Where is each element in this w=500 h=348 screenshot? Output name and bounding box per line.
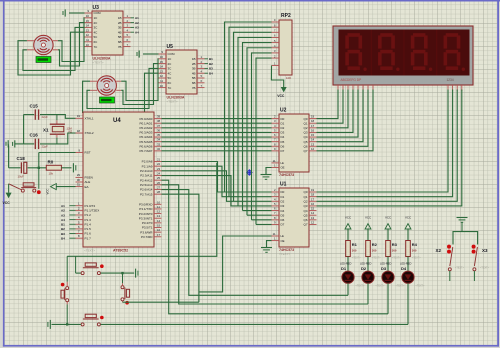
wire VCC to R3 bbox=[387, 229, 389, 241]
svg-text:VCC: VCC bbox=[277, 94, 285, 98]
U2 pin 6 D4 bbox=[272, 136, 280, 138]
U1 pin 12 Q7 bbox=[309, 223, 317, 225]
svg-text:16: 16 bbox=[311, 128, 315, 132]
svg-text:1B: 1B bbox=[118, 16, 122, 20]
wire M1 coil B to U3 2C bbox=[58, 23, 85, 66]
wire reset button to RST junction bbox=[38, 168, 40, 189]
svg-text:C18: C18 bbox=[17, 156, 26, 161]
svg-text:XTAL2: XTAL2 bbox=[85, 131, 94, 135]
RP2 pin 4 bbox=[272, 47, 280, 49]
U5 pin 11 (6C) bbox=[159, 82, 167, 84]
svg-text:P1.6: P1.6 bbox=[85, 232, 92, 236]
svg-text:P1.4: P1.4 bbox=[85, 222, 92, 226]
svg-text:P3.3/INT1: P3.3/INT1 bbox=[139, 216, 153, 220]
RP2 pin 1 bbox=[272, 65, 280, 67]
M2 pin stubs bbox=[90, 80, 97, 82]
svg-text:D7: D7 bbox=[281, 223, 285, 227]
svg-text:15: 15 bbox=[86, 19, 90, 23]
U2 pin 16 Q3 bbox=[309, 131, 317, 133]
wire C15-C16 left join bbox=[23, 115, 25, 144]
svg-text:RST: RST bbox=[85, 151, 91, 155]
node A1 (P1.0) bbox=[70, 205, 76, 207]
svg-text:D0: D0 bbox=[281, 117, 285, 121]
U1 pin 11 LE bbox=[272, 235, 280, 237]
U1 pin 15 Q4 bbox=[309, 210, 317, 212]
wire X3 lower stub bbox=[473, 271, 475, 281]
svg-text:D3: D3 bbox=[281, 131, 285, 135]
U3 pin 9 (COM) bbox=[85, 12, 93, 14]
display digit pin 3 bbox=[456, 85, 458, 91]
resistor R2 300 bbox=[366, 241, 371, 257]
svg-text:6B: 6B bbox=[192, 81, 196, 85]
wire P2.4 to LED D3 row bbox=[162, 180, 389, 314]
svg-text:14: 14 bbox=[157, 219, 161, 223]
svg-text:17: 17 bbox=[157, 233, 161, 237]
M1 position readout (green) bbox=[36, 57, 51, 63]
wire M2 coil C to U5 3C bbox=[87, 68, 159, 108]
U4 pin 33 P0.6/AD6 bbox=[154, 145, 162, 147]
node A4 (P1.3) bbox=[70, 219, 76, 221]
U3 pin 12 (5C) bbox=[85, 36, 93, 38]
U5 pin 5 (5B) bbox=[197, 77, 205, 79]
svg-text:14: 14 bbox=[86, 24, 90, 28]
svg-text:300: 300 bbox=[352, 248, 357, 252]
svg-text:D1: D1 bbox=[281, 195, 285, 199]
U5 pin 4 (4B) bbox=[197, 72, 205, 74]
svg-text:VCC: VCC bbox=[46, 189, 50, 195]
node A2 (P1.1) bbox=[70, 209, 76, 211]
svg-text:16: 16 bbox=[311, 202, 315, 206]
svg-text:P3.7/RD: P3.7/RD bbox=[141, 235, 153, 239]
ic U1 74HC573 bbox=[279, 188, 309, 247]
node B4 bbox=[205, 72, 209, 74]
svg-text:ALE: ALE bbox=[85, 180, 91, 184]
ground (U1 OE) bbox=[261, 247, 272, 249]
display segment pin DP bbox=[372, 85, 374, 91]
svg-text:LED-RED: LED-RED bbox=[400, 262, 412, 266]
M2 position readout (green) bbox=[100, 97, 115, 103]
svg-text:P3.1/TXD: P3.1/TXD bbox=[139, 207, 153, 211]
svg-text:16: 16 bbox=[160, 55, 164, 59]
U5 pin 16 (1C) bbox=[159, 58, 167, 60]
U4 pin 27 P2.6/A14 bbox=[154, 189, 162, 191]
svg-text:X1: X1 bbox=[43, 128, 49, 133]
svg-text:X3: X3 bbox=[482, 248, 488, 253]
node A3 bbox=[131, 26, 135, 28]
svg-text:LE: LE bbox=[281, 161, 285, 165]
svg-text:PSEN: PSEN bbox=[85, 176, 93, 180]
U3 pin 10 (7C) bbox=[85, 46, 93, 48]
display segment pin B bbox=[342, 85, 344, 91]
svg-text:P0.6/AD6: P0.6/AD6 bbox=[139, 144, 152, 148]
svg-text:P1.3: P1.3 bbox=[85, 218, 92, 222]
svg-text:Q1: Q1 bbox=[303, 121, 307, 125]
U2 pin 18 Q1 bbox=[309, 122, 317, 124]
svg-text:13: 13 bbox=[157, 214, 161, 218]
node A1 bbox=[131, 17, 135, 19]
svg-text:B2: B2 bbox=[209, 62, 213, 66]
svg-text:P3.5/T1: P3.5/T1 bbox=[142, 226, 153, 230]
U4 pin 31 EA bbox=[76, 186, 84, 188]
svg-text:R0: R0 bbox=[48, 160, 54, 165]
svg-text:26: 26 bbox=[157, 181, 161, 185]
svg-text:10uF: 10uF bbox=[18, 174, 25, 178]
svg-text:P2.1/A9: P2.1/A9 bbox=[142, 164, 153, 168]
svg-text:A2: A2 bbox=[135, 21, 139, 25]
svg-text:16: 16 bbox=[157, 228, 161, 232]
U4 pin 25 P2.4/A12 bbox=[154, 179, 162, 181]
svg-text:D0: D0 bbox=[281, 190, 285, 194]
U2 pin 1 OE bbox=[272, 167, 280, 169]
U4 pin 8 P1.7 bbox=[76, 237, 84, 239]
svg-text:3B: 3B bbox=[192, 67, 196, 71]
wire R1 to D1 bbox=[347, 257, 349, 272]
wire VCC to EA bbox=[56, 186, 75, 188]
wire U2 Q outputs to display segments bbox=[317, 90, 339, 119]
svg-text:R4: R4 bbox=[412, 242, 418, 247]
svg-text:A1: A1 bbox=[61, 204, 65, 208]
node B1 (P1.4) bbox=[70, 223, 76, 225]
U4 pin 21 P2.0/A8 bbox=[154, 161, 162, 163]
wire R4 to D4 bbox=[407, 257, 409, 272]
junction top row / right key bbox=[121, 272, 123, 274]
U4 pin 11 P3.1/TXD bbox=[154, 208, 162, 210]
ground (X2/X3) bbox=[457, 217, 468, 219]
wire X2/X3 common bbox=[453, 232, 478, 245]
svg-text:X2: X2 bbox=[436, 248, 442, 253]
svg-text:P1.7: P1.7 bbox=[85, 236, 92, 240]
wire C15 to XTAL1 bbox=[40, 115, 76, 119]
svg-text:Q0: Q0 bbox=[303, 117, 307, 121]
U1 pin 18 Q1 bbox=[309, 196, 317, 198]
wire key column left bbox=[66, 256, 68, 282]
U4 pin 28 P2.7/A15 bbox=[154, 193, 162, 195]
svg-text:13: 13 bbox=[86, 28, 90, 32]
svg-text:P1.0/T2: P1.0/T2 bbox=[85, 204, 96, 208]
svg-text:D2: D2 bbox=[281, 126, 285, 130]
RP2 pin 8 bbox=[272, 26, 280, 28]
svg-text:A4: A4 bbox=[61, 218, 65, 222]
display digit pin 4 bbox=[461, 85, 463, 91]
wire P2.5 to LED D2 row bbox=[162, 185, 369, 304]
node B3 (P1.6) bbox=[70, 233, 76, 235]
wire top key row riser bbox=[75, 256, 77, 273]
RP2 pin 9 bbox=[272, 21, 280, 23]
svg-text:15: 15 bbox=[311, 133, 315, 137]
node B2 bbox=[205, 63, 209, 65]
svg-text:24: 24 bbox=[157, 172, 161, 176]
svg-text:C15: C15 bbox=[30, 104, 39, 109]
wire VCC to R1 bbox=[347, 229, 349, 241]
U4 pin 26 P2.5/A13 bbox=[154, 184, 162, 186]
display digit pin 2 bbox=[452, 85, 454, 91]
svg-text:<TEXT>: <TEXT> bbox=[455, 267, 465, 270]
svg-text:10: 10 bbox=[86, 43, 90, 47]
U3 pin 14 (3C) bbox=[85, 26, 93, 28]
U1 pin 5 D3 bbox=[272, 205, 280, 207]
svg-text:D4: D4 bbox=[281, 135, 285, 139]
svg-text:P2.5/A13: P2.5/A13 bbox=[140, 183, 153, 187]
svg-text:1B: 1B bbox=[192, 57, 196, 61]
svg-text:P0.2/AD2: P0.2/AD2 bbox=[139, 126, 152, 130]
wire C16 to XTAL2 bbox=[40, 133, 76, 144]
svg-text:18: 18 bbox=[77, 129, 81, 133]
svg-text:ABCDEFG DP: ABCDEFG DP bbox=[341, 78, 362, 82]
svg-text:R1: R1 bbox=[352, 242, 358, 247]
svg-text:RP2: RP2 bbox=[281, 13, 291, 19]
U5 pin 10 (7C) bbox=[159, 87, 167, 89]
svg-text:OE: OE bbox=[281, 239, 285, 243]
svg-text:300: 300 bbox=[372, 248, 377, 252]
svg-text:18: 18 bbox=[311, 193, 315, 197]
wire right key riser bbox=[122, 273, 124, 283]
U4 pin 39 P0.0/AD0 bbox=[154, 118, 162, 120]
svg-text:D2: D2 bbox=[361, 266, 367, 271]
resistor R0 10k bbox=[46, 165, 61, 170]
svg-text:10: 10 bbox=[160, 84, 164, 88]
svg-text:<TEXT>: <TEXT> bbox=[372, 256, 382, 259]
wire VCC to R4 bbox=[407, 229, 409, 241]
wire C18 to R0 bbox=[28, 167, 47, 169]
wire U2 OE to ground bbox=[266, 168, 272, 175]
svg-text:<TEXT>: <TEXT> bbox=[352, 256, 362, 259]
wire R0 to ground bbox=[61, 167, 71, 169]
ground (C18) bbox=[7, 140, 9, 147]
U4 pin 9 RST bbox=[76, 152, 84, 154]
svg-text:12: 12 bbox=[160, 74, 164, 78]
svg-text:U4: U4 bbox=[113, 118, 121, 124]
U1 pin 8 D6 bbox=[272, 219, 280, 221]
svg-text:7B: 7B bbox=[192, 86, 196, 90]
svg-text:P3.4/T0: P3.4/T0 bbox=[142, 221, 153, 225]
svg-text:5B: 5B bbox=[192, 76, 196, 80]
wire M2 coil D to U5 4C bbox=[83, 73, 159, 112]
U2 pin 4 D2 bbox=[272, 127, 280, 129]
svg-text:VCC: VCC bbox=[365, 215, 371, 219]
svg-text:B4: B4 bbox=[209, 71, 213, 75]
svg-text:P1.5: P1.5 bbox=[85, 227, 92, 231]
wire M2 coil A to U5 1C bbox=[121, 59, 158, 101]
svg-text:HZ: HZ bbox=[69, 129, 73, 133]
svg-text:A3: A3 bbox=[61, 213, 65, 217]
wire M1 coil C to U3 3C bbox=[23, 27, 85, 70]
wire U1 Q outputs to display digits bbox=[317, 90, 449, 193]
U3 pin 5 (5B) bbox=[123, 36, 131, 38]
U2 pin 8 D6 bbox=[272, 145, 280, 147]
display segment pin D bbox=[352, 85, 354, 91]
svg-text:D3: D3 bbox=[281, 204, 285, 208]
svg-text:7B: 7B bbox=[118, 45, 122, 49]
node B1 bbox=[205, 58, 209, 60]
ground (R0) bbox=[72, 163, 74, 172]
power VCC (EA pin) bbox=[51, 184, 57, 190]
wire U1 D4-D7 rows bbox=[243, 210, 272, 212]
svg-text:17: 17 bbox=[311, 197, 315, 201]
svg-text:D2: D2 bbox=[281, 199, 285, 203]
svg-text:D7: D7 bbox=[281, 149, 285, 153]
svg-text:300: 300 bbox=[412, 248, 417, 252]
svg-text:D5: D5 bbox=[281, 140, 285, 144]
svg-text:<TEXT>: <TEXT> bbox=[167, 100, 178, 104]
svg-text:P1.2: P1.2 bbox=[85, 213, 92, 217]
U4 pin 1 P1.0/T2 bbox=[76, 205, 84, 207]
U5 pin 6 (6B) bbox=[197, 82, 205, 84]
svg-text:LED-RED: LED-RED bbox=[380, 262, 392, 266]
U2 pin 5 D3 bbox=[272, 131, 280, 133]
U2 pin 2 D0 bbox=[272, 118, 280, 120]
svg-text:30: 30 bbox=[77, 178, 81, 182]
U5 pin 14 (3C) bbox=[159, 67, 167, 69]
stepper motor M2 bbox=[97, 76, 116, 95]
svg-text:D6: D6 bbox=[281, 218, 285, 222]
wire D2 cathode down bbox=[367, 283, 369, 304]
svg-text:14: 14 bbox=[160, 65, 164, 69]
U4 pin 6 P1.5 bbox=[76, 228, 84, 230]
U4 pin 36 P0.3/AD3 bbox=[154, 131, 162, 133]
U4 pin 35 P0.4/AD4 bbox=[154, 136, 162, 138]
svg-text:P0.4/AD4: P0.4/AD4 bbox=[139, 135, 152, 139]
svg-text:22: 22 bbox=[157, 162, 161, 166]
svg-text:12: 12 bbox=[311, 147, 315, 151]
ground (bottom row) bbox=[49, 320, 51, 329]
U4 pin 13 P3.3/INT1 bbox=[154, 217, 162, 219]
svg-text:23: 23 bbox=[157, 167, 161, 171]
svg-text:<TEXT>: <TEXT> bbox=[392, 256, 402, 259]
svg-text:13: 13 bbox=[311, 142, 315, 146]
U1 pin 2 D0 bbox=[272, 191, 280, 193]
U3 pin 16 (1C) bbox=[85, 17, 93, 19]
svg-text:VCC: VCC bbox=[345, 215, 351, 219]
svg-text:A4: A4 bbox=[135, 30, 139, 34]
push button SW-right bbox=[124, 288, 126, 300]
svg-text:D1: D1 bbox=[281, 121, 285, 125]
svg-text:Q1: Q1 bbox=[303, 195, 307, 199]
U2 pin 17 Q2 bbox=[309, 127, 317, 129]
U5 pin 3 (3B) bbox=[197, 67, 205, 69]
wire RP2 common to VCC bbox=[271, 66, 283, 88]
svg-text:<TEXT>: <TEXT> bbox=[93, 61, 104, 65]
U1 pin 19 Q0 bbox=[309, 191, 317, 193]
svg-text:Q7: Q7 bbox=[303, 149, 307, 153]
svg-text:27: 27 bbox=[157, 186, 161, 190]
svg-text:U3: U3 bbox=[93, 5, 100, 11]
svg-text:B3: B3 bbox=[209, 67, 213, 71]
stepper motor M1 bbox=[34, 35, 53, 54]
U5 pin 1 (1B) bbox=[197, 58, 205, 60]
U4 pin 30 ALE bbox=[76, 181, 84, 183]
capacitor C18 10uF bbox=[20, 162, 22, 173]
wire VCC to R2 bbox=[367, 229, 369, 241]
node B2 (P1.5) bbox=[70, 228, 76, 230]
svg-text:19: 19 bbox=[311, 115, 315, 119]
svg-text:33: 33 bbox=[157, 142, 161, 146]
svg-text:18: 18 bbox=[311, 119, 315, 123]
U1 pin 14 Q5 bbox=[309, 214, 317, 216]
display segment pin F bbox=[362, 85, 364, 91]
display DS1 4-digit 7-segment bbox=[333, 26, 473, 85]
svg-text:6B: 6B bbox=[118, 40, 122, 44]
svg-text:Q3: Q3 bbox=[303, 131, 307, 135]
RP2 pin 6 bbox=[272, 36, 280, 38]
svg-text:Q2: Q2 bbox=[303, 199, 307, 203]
wire X2 lower stub bbox=[449, 271, 451, 281]
capacitor C16 22pF bbox=[24, 143, 35, 145]
RP2 pin 2 bbox=[272, 57, 280, 59]
svg-text:VCC: VCC bbox=[405, 215, 411, 219]
wire M2 coil B to U5 2C bbox=[121, 64, 158, 105]
ground (U2 OE) bbox=[261, 174, 272, 176]
resistor R1 300 bbox=[346, 241, 351, 257]
svg-text:R3: R3 bbox=[392, 242, 398, 247]
crystal X1 12MHz bbox=[56, 115, 58, 121]
svg-text:COM: COM bbox=[168, 52, 176, 56]
U1 pin 1 OE bbox=[272, 240, 280, 242]
U3 pin 4 (4B) bbox=[123, 31, 131, 33]
svg-text:P2.4/A12: P2.4/A12 bbox=[140, 178, 153, 182]
wire R2 to D2 bbox=[367, 257, 369, 272]
capacitor C15 22pF bbox=[24, 114, 35, 116]
U2 pin 3 D1 bbox=[272, 122, 280, 124]
display digit pin 1 bbox=[447, 85, 449, 91]
U5 pin 12 (5C) bbox=[159, 77, 167, 79]
svg-text:VCC: VCC bbox=[385, 215, 391, 219]
node A3 (P1.2) bbox=[70, 214, 76, 216]
svg-text:22pF: 22pF bbox=[42, 144, 49, 148]
resistor R4 300 bbox=[406, 241, 411, 257]
wire bottom key row bbox=[52, 323, 81, 325]
svg-text:<TEXT>: <TEXT> bbox=[396, 285, 406, 288]
svg-text:14: 14 bbox=[311, 138, 315, 142]
U4 pin 19 XTAL1 bbox=[76, 117, 84, 119]
svg-text:15: 15 bbox=[160, 60, 164, 64]
U4 pin 15 P3.5/T1 bbox=[154, 227, 162, 229]
U4 pin 18 XTAL2 bbox=[76, 132, 84, 134]
wire P2.6 to LED D1 row bbox=[162, 190, 349, 296]
svg-text:Q6: Q6 bbox=[303, 218, 307, 222]
svg-text:P2.2/A10: P2.2/A10 bbox=[140, 169, 153, 173]
svg-text:300: 300 bbox=[392, 248, 397, 252]
svg-text:OE: OE bbox=[281, 166, 285, 170]
svg-text:11: 11 bbox=[273, 232, 276, 236]
svg-text:36: 36 bbox=[157, 128, 161, 132]
svg-text:VCC: VCC bbox=[3, 201, 11, 205]
svg-text:D6: D6 bbox=[281, 144, 285, 148]
svg-text:Q6: Q6 bbox=[303, 144, 307, 148]
U4 pin 5 P1.4 bbox=[76, 223, 84, 225]
svg-text:11: 11 bbox=[273, 159, 276, 163]
svg-text:<TEXT>: <TEXT> bbox=[356, 285, 366, 288]
U1 pin 6 D4 bbox=[272, 210, 280, 212]
U4 pin 37 P0.2/AD2 bbox=[154, 127, 162, 129]
U1 pin 3 D1 bbox=[272, 196, 280, 198]
push button (reset) bbox=[23, 183, 34, 186]
U2 pin 11 LE bbox=[272, 162, 280, 164]
wire P2.7 to key row bbox=[162, 194, 199, 302]
wire D3 cathode down bbox=[387, 283, 389, 314]
ic U3 ULN2803A bbox=[92, 11, 123, 55]
wire C18 left to ground riser bbox=[9, 167, 21, 169]
svg-text:15: 15 bbox=[311, 207, 315, 211]
svg-text:B1: B1 bbox=[209, 57, 213, 61]
U1 pin 13 Q6 bbox=[309, 219, 317, 221]
node A2 bbox=[131, 22, 135, 24]
svg-text:21: 21 bbox=[157, 158, 161, 162]
node B4 (P1.7) bbox=[70, 237, 76, 239]
wire RST net bbox=[39, 152, 76, 154]
node A4 bbox=[131, 31, 135, 33]
U3 pin 13 (4C) bbox=[85, 31, 93, 33]
wire U1 LE net bbox=[199, 236, 272, 292]
